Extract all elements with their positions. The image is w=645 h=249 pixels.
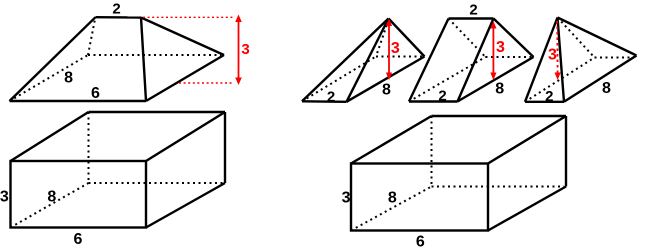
svg-text:8: 8: [47, 189, 56, 206]
svg-text:3: 3: [0, 189, 9, 206]
wire B2 BTL-BTR: [432, 115, 567, 117]
wire B2 FTR-BTR: [488, 116, 566, 164]
wire B2 BTR-BBR: [565, 116, 567, 187]
wire B1 FTL-BTL: [11, 112, 89, 161]
svg-text:6: 6: [416, 234, 425, 249]
svg-text:2: 2: [438, 87, 446, 104]
svg-text:8: 8: [382, 82, 391, 99]
wire bottom edge A-B: [10, 100, 147, 102]
wire B1 BTL-BTR: [89, 111, 226, 113]
wire P2 B-E: [458, 19, 494, 102]
wire P2 E-C: [494, 19, 534, 58]
svg-text:3: 3: [241, 41, 249, 58]
wire P3 E-B: [558, 18, 565, 102]
svg-text:8: 8: [64, 70, 73, 87]
wire P3 hidden A-D: [525, 58, 595, 102]
wire B1 hidden FBL-BBL: [11, 183, 89, 228]
wire front right edge F-B: [141, 18, 146, 102]
wire hidden A-C: [10, 55, 89, 101]
wire B1 FBR-BBR: [146, 183, 225, 228]
wire P1 B-C: [347, 57, 425, 102]
wire P1 E-A: [302, 19, 389, 102]
wire B1 hidden BTL-BBL: [88, 112, 90, 183]
wire left slant E-A: [10, 17, 96, 101]
svg-text:2: 2: [327, 88, 335, 105]
wire B1 BTR-BBR: [224, 112, 226, 183]
wire top right slant F-D: [141, 18, 224, 56]
wire P3 hidden E-D: [558, 18, 595, 58]
svg-text:8: 8: [495, 81, 504, 98]
wire P1 E-B: [347, 19, 389, 102]
svg-text:3: 3: [342, 189, 351, 206]
svg-text:2: 2: [545, 88, 553, 105]
red height dotted arrow of P3: [555, 21, 561, 80]
wire B1 hidden BBL-BBR: [89, 182, 224, 184]
svg-text:3: 3: [391, 40, 400, 57]
svg-text:8: 8: [602, 80, 611, 97]
wire P3 E-A: [525, 18, 558, 102]
svg-text:2: 2: [469, 2, 477, 19]
wire P2 T-A: [409, 19, 449, 102]
box B2 bottom-right: [351, 116, 566, 231]
wire hidden C-E: [88, 19, 95, 55]
svg-text:3: 3: [496, 39, 505, 56]
wire P3 E-C: [558, 18, 637, 56]
pyramid P3: [525, 18, 637, 102]
wire P3 hidden D-C: [595, 57, 635, 59]
wire P2 hidden A-D: [409, 57, 486, 102]
svg-text:8: 8: [388, 190, 397, 207]
wire P1 hidden D-C: [376, 56, 422, 58]
red height arrow of W1: [235, 15, 242, 86]
wire top edge E-F: [96, 16, 142, 19]
wire P1 A-B: [302, 100, 347, 103]
wire P2 hidden T-D: [449, 19, 486, 58]
wire P2 A-B: [409, 100, 458, 102]
wire B1 FTR-BTR: [146, 112, 225, 161]
wire P1 hidden E-D: [376, 20, 389, 57]
wire P3 A-B: [525, 101, 564, 103]
pyramid P2: [409, 19, 534, 102]
red guide top of W1: [143, 16, 234, 18]
red guide bottom of W1: [179, 82, 234, 84]
svg-text:6: 6: [74, 231, 83, 248]
wire B2 hidden FBL-BBL: [351, 187, 432, 231]
red height arrow of P2: [490, 21, 496, 80]
wire P2 hidden D-C: [486, 56, 532, 58]
wedge W1 top-left: [10, 17, 225, 101]
wire B2 front rect: [351, 164, 488, 231]
wire B1 front rect: [11, 161, 147, 228]
wire P3 B-C: [564, 56, 637, 102]
svg-text:6: 6: [91, 85, 100, 102]
wire hidden C-D: [88, 54, 221, 56]
wire P1 hidden A-D: [302, 57, 376, 102]
wire B2 FTL-BTL: [351, 116, 432, 164]
svg-text:3: 3: [548, 46, 557, 63]
red height arrow of P1: [386, 19, 392, 81]
wire bottom right slant B-D: [146, 55, 224, 101]
wire P1 E-C: [389, 19, 425, 57]
pyramid P1: [302, 19, 425, 102]
wire B2 hidden BTL-BBL: [431, 116, 433, 187]
svg-text:2: 2: [112, 1, 120, 18]
wire P2 B-C: [458, 57, 534, 102]
box B1 bottom-left: [11, 112, 226, 228]
wire B2 hidden BBL-BBR: [432, 186, 565, 188]
wire P2 T-E: [449, 17, 494, 19]
wire B2 FBR-BBR: [488, 187, 566, 231]
